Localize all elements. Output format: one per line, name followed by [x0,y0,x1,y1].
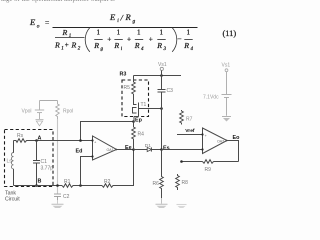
svg-text:R2: R2 [104,179,111,185]
svg-text:C2: C2 [63,194,70,200]
battery 7.1Vdc [222,95,232,116]
wire op-amp bottom input [81,157,93,186]
wire R1 to R2 [75,185,102,187]
svg-text:B: B [38,179,42,185]
svg-text:R1: R1 [64,179,71,185]
battery Vpol [35,101,44,120]
resistor R5 [132,76,136,95]
op-amp OA1 [93,136,117,160]
resistor Rs [14,139,30,143]
svg-text:R3: R3 [120,72,127,78]
svg-text:OA1: OA1 [107,148,114,152]
capacitor C2 [54,194,61,200]
svg-text:Ls: Ls [7,159,13,165]
node Ep [132,120,135,123]
svg-text:+: + [94,140,97,145]
partial cropped text line at very top [1,0,141,5]
svg-text:Rs: Rs [17,133,24,139]
junction dot at bias line [56,184,59,187]
circuit schematic [0,0,242,208]
svg-text:T1: T1 [141,102,147,108]
wire OA2 output Eo [227,141,239,162]
svg-text:C3: C3 [167,88,174,94]
op-amp OA2 [203,128,228,154]
resistor R8 [176,174,180,190]
svg-text:A: A [38,136,42,142]
svg-text:Rpol: Rpol [63,109,73,115]
box R3 dashed [122,80,149,117]
svg-text:D1: D1 [145,143,151,149]
ground (Vs1 right) [222,116,231,118]
resistor R7 [180,110,184,125]
node A [35,139,38,142]
wire Ls bottom to rail [13,169,15,186]
svg-text:Vs1: Vs1 [222,63,231,69]
wire bias vertical line (light) [57,119,59,194]
wire Vpol top to Rpol top (light) [40,100,58,102]
svg-text:R9: R9 [205,167,212,173]
main fraction bar [53,27,198,29]
svg-text:7.1Vdc: 7.1Vdc [203,95,219,101]
svg-text:Ep: Ep [135,118,143,124]
node Ee [132,148,135,151]
svg-text:Vref: Vref [185,128,195,134]
svg-text:R5: R5 [124,85,131,91]
ground (C2) [57,200,59,204]
wire Ee to D1 to Es [134,149,148,151]
junction dot R9 left end [180,160,183,163]
svg-text:Circuit: Circuit [5,197,20,203]
svg-text:Ee: Ee [125,145,132,151]
svg-text:R7: R7 [186,117,193,123]
svg-text:Vpol: Vpol [22,109,32,115]
svg-text:3.77p: 3.77p [41,166,54,172]
svg-text:R4: R4 [138,132,145,138]
wire R9 feedback [214,161,239,163]
wire R5 top to Vs1 line [134,75,182,77]
resistor R9 [203,160,214,164]
wire Rs to node A and out to op-amp [29,140,93,142]
node B [35,184,38,187]
svg-text:+: + [205,133,208,138]
inductor Ls [11,153,13,169]
wire Es to OA2 input [162,149,203,151]
resistor R4 [132,122,136,150]
wire OA1 output [117,149,134,151]
svg-text:Es: Es [163,146,170,152]
node Es [160,148,163,151]
wire Vref to OA2 [177,134,203,136]
resistor R1 [62,184,75,188]
svg-text:Ed: Ed [76,149,83,155]
ground (Vpol) [36,120,44,126]
resistor Rpol (light) [56,101,60,120]
svg-text:R6: R6 [153,181,160,187]
transistor T1 [133,94,162,122]
svg-text:OA2: OA2 [217,140,224,144]
capacitor C1 [33,141,40,186]
junction dot T1 drain [160,107,163,110]
big parens [85,28,90,52]
tank circuit dashed box [5,130,54,187]
wire feedback from Ep to + input [81,122,134,141]
junction dot bottom input [79,184,82,187]
svg-text:R8: R8 [182,180,189,186]
resistor R6 [160,150,164,199]
junction dot A-rail feedback [79,139,82,142]
wire R2 to output feedback corner [115,150,134,186]
diode D1 [147,147,151,151]
ground (R6) [161,198,163,204]
svg-text:C1: C1 [41,159,48,165]
svg-text:Eo: Eo [233,135,241,141]
resistor R2 [102,184,115,188]
wire tank left vertical [13,141,15,154]
equation (11) [0,0,242,56]
wire bottom rail B to R1 R2 [14,185,63,187]
ground (R8) [177,204,187,206]
capacitor C3 [158,90,166,150]
